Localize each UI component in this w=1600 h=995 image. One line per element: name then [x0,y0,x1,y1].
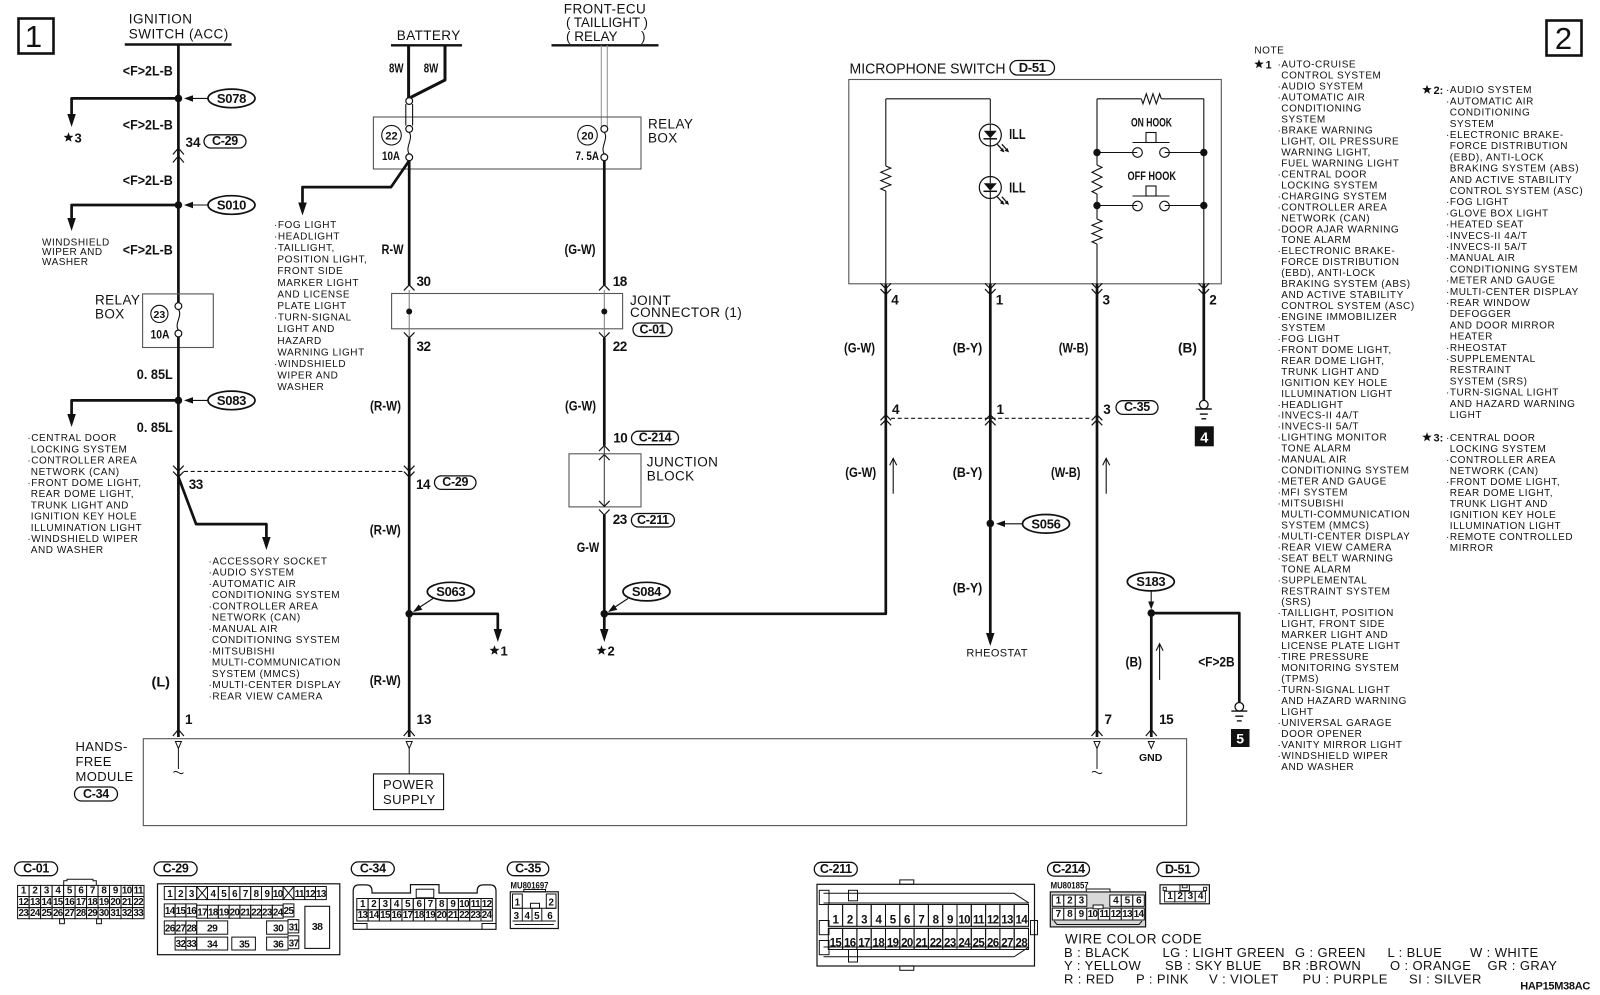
svg-text:12: 12 [1111,909,1122,920]
svg-text:R-W: R-W [382,242,404,257]
svg-text:1: 1 [501,644,508,659]
svg-text:CONDITIONING: CONDITIONING [1281,104,1362,115]
svg-text:17: 17 [858,938,870,950]
svg-text:·TIRE PRESSURE: ·TIRE PRESSURE [1278,652,1370,663]
fuse 22 element [406,98,413,105]
svg-text:1: 1 [996,293,1004,308]
svg-text:WIPER AND: WIPER AND [277,371,338,382]
svg-text:AND HAZARD WARNING: AND HAZARD WARNING [1450,399,1576,410]
svg-text:10: 10 [122,886,133,897]
svg-text:10: 10 [273,889,284,900]
connector C-211 middle bar [828,926,1028,928]
svg-text:SYSTEM: SYSTEM [1281,115,1325,126]
svg-text:31: 31 [289,922,300,933]
note column 3 [1422,432,1432,441]
svg-text:MARKER LIGHT AND: MARKER LIGHT AND [1281,630,1388,641]
svg-text:35: 35 [239,940,250,951]
svg-text:LICENSE PLATE LIGHT: LICENSE PLATE LIGHT [1281,641,1400,652]
wire R-W fuse 22 to joint connector [408,161,411,285]
module pin entry chevron [173,730,184,737]
svg-text:17: 17 [403,910,414,921]
svg-text:·INVECS-II 4A/T: ·INVECS-II 4A/T [1446,231,1528,242]
svg-text:3: 3 [1103,402,1111,417]
module pin 15 GND terminal [1148,742,1154,749]
svg-text:16: 16 [391,910,402,921]
svg-text:1: 1 [25,19,42,54]
svg-text:15: 15 [380,910,391,921]
svg-text:18: 18 [87,897,98,908]
svg-text:13: 13 [316,889,327,900]
svg-text:15: 15 [176,906,187,917]
svg-text:NETWORK (CAN): NETWORK (CAN) [31,467,120,478]
relay box (fuses 22, 20) [373,117,641,169]
connector crossing 23 C-211 [599,501,610,507]
svg-text:·MFI SYSTEM: ·MFI SYSTEM [1278,488,1349,499]
svg-text:TRUNK LIGHT AND: TRUNK LIGHT AND [1450,499,1548,510]
svg-text:ON HOOK: ON HOOK [1131,118,1173,130]
branch wire to *2 [603,614,606,629]
wire (G-W) fuse 20 to joint connector [603,161,606,285]
connector C-01 [15,862,58,876]
connector C-35 [507,862,549,876]
svg-text:28: 28 [76,908,87,919]
wire (G-W) joint connector to junction block [603,338,606,446]
svg-text:23: 23 [262,907,273,918]
svg-text:C-29: C-29 [212,134,238,148]
wire (R-W) C-29 to S063 [408,466,411,614]
svg-text:·AUDIO SYSTEM: ·AUDIO SYSTEM [209,568,295,579]
svg-text:SWITCH (ACC): SWITCH (ACC) [129,27,229,42]
microphone switch pin 1 [985,283,996,289]
svg-text:·MULTI-CENTER DISPLAY: ·MULTI-CENTER DISPLAY [1278,531,1411,542]
svg-text:S056: S056 [1031,516,1060,531]
connector C-211 housing [817,884,1035,966]
svg-text:14: 14 [416,477,431,492]
svg-text:·SUPPLEMENTAL: ·SUPPLEMENTAL [1446,354,1536,365]
svg-text:2:: 2: [1434,85,1444,97]
front-ECU bus bar [552,44,659,46]
node S056 junction dot [987,520,995,528]
svg-text:20: 20 [581,131,593,143]
svg-text:15: 15 [53,897,64,908]
svg-text:REAR DOME LIGHT,: REAR DOME LIGHT, [31,489,134,500]
svg-text:7: 7 [1105,712,1113,727]
svg-text:14: 14 [1016,915,1029,927]
branch wire to accessory socket list [178,477,266,538]
svg-text:G-W: G-W [577,540,600,555]
svg-text:10: 10 [1088,909,1099,920]
wire (B) S183 to ground 5 [1151,613,1239,703]
svg-text:3: 3 [514,911,520,922]
svg-text:17: 17 [76,897,87,908]
connector C-29 [154,862,197,876]
svg-text:22: 22 [613,339,627,354]
svg-text:2: 2 [1555,21,1572,56]
node S063 junction dot [405,610,413,618]
hands-free module box [143,739,1186,826]
svg-text:32: 32 [176,939,187,950]
branch wire to *3 [72,98,179,114]
svg-text:S078: S078 [217,91,246,106]
svg-text:DOOR OPENER: DOOR OPENER [1281,729,1362,740]
svg-text:( TAILLIGHT ): ( TAILLIGHT ) [566,15,648,30]
connector C-214 pin grid [1052,895,1064,906]
svg-text:TONE ALARM: TONE ALARM [1281,564,1351,575]
svg-text:26: 26 [165,923,176,934]
page tab 2 [1547,21,1582,56]
svg-text:21: 21 [122,897,133,908]
svg-text:RESTRAINT SYSTEM: RESTRAINT SYSTEM [1281,586,1390,597]
svg-text:14: 14 [41,897,52,908]
svg-text:·AUTO-CRUISE: ·AUTO-CRUISE [1278,60,1357,71]
ground 5 [1235,703,1244,712]
page tab 1 [19,19,54,54]
microphone switch box D-51 [849,80,1222,284]
svg-text:·LIGHTING MONITOR: ·LIGHTING MONITOR [1278,433,1388,444]
wire 0.85L relay box to S083 [177,337,180,401]
svg-text:(B-Y): (B-Y) [953,581,983,596]
svg-text:19: 19 [425,910,436,921]
svg-text:HANDS-: HANDS- [76,739,128,754]
svg-text:·TAILLIGHT, POSITION: ·TAILLIGHT, POSITION [1278,608,1394,619]
svg-text:R : RED: R : RED [1064,971,1114,986]
svg-text:PLATE LIGHT: PLATE LIGHT [277,301,346,312]
svg-text:21: 21 [448,910,459,921]
svg-text:27: 27 [1001,938,1013,950]
wire (R-W) S063 to module pin 13 [408,614,411,737]
svg-text:11: 11 [471,899,481,910]
svg-text:26: 26 [53,908,64,919]
connector C-01 top tab [64,879,97,885]
svg-text:·CHARGING SYSTEM: ·CHARGING SYSTEM [1278,191,1388,202]
svg-text:25: 25 [284,906,295,917]
svg-text:·FOG LIGHT: ·FOG LIGHT [1446,197,1509,208]
svg-text:12: 12 [305,889,316,900]
wire (W-B) pin 3 down to module pin 7 [1096,284,1099,737]
svg-text:18: 18 [873,938,886,950]
svg-text:1: 1 [997,402,1005,417]
wire: top rail left section [886,98,991,100]
fuse 22 designator [382,125,402,145]
svg-text:BOX: BOX [648,131,678,146]
lower resistor [1092,219,1102,244]
svg-text:(G-W): (G-W) [565,242,596,257]
svg-text:LOCKING SYSTEM: LOCKING SYSTEM [1450,444,1547,455]
connector C-01 pin grid [18,885,29,896]
fuse 20 designator [578,125,598,145]
svg-text:(G-W): (G-W) [845,465,876,480]
svg-text:·UNIVERSAL GARAGE: ·UNIVERSAL GARAGE [1278,718,1393,729]
svg-text:·INVECS-II 5A/T: ·INVECS-II 5A/T [1446,242,1528,253]
svg-text:LOCKING SYSTEM: LOCKING SYSTEM [31,444,128,455]
svg-text:13: 13 [417,712,433,727]
svg-text:13: 13 [1122,909,1133,920]
node S078 junction dot [175,95,183,103]
svg-text:·AUDIO SYSTEM: ·AUDIO SYSTEM [1446,85,1532,96]
branch wire to windshield wiper [72,205,179,218]
svg-text:1: 1 [515,897,521,908]
svg-text:·CONTROLLER AREA: ·CONTROLLER AREA [209,601,319,612]
svg-text:FORCE DISTRIBUTION: FORCE DISTRIBUTION [1281,257,1399,268]
svg-text:DEFOGGER: DEFOGGER [1450,309,1512,320]
svg-text:11: 11 [973,915,985,927]
svg-text:<F>2L-B: <F>2L-B [123,117,173,132]
svg-text:26: 26 [987,938,999,950]
svg-text:29: 29 [87,908,98,919]
svg-text:·AUTOMATIC AIR: ·AUTOMATIC AIR [209,579,297,590]
svg-text:·TURN-SIGNAL LIGHT: ·TURN-SIGNAL LIGHT [1278,685,1391,696]
svg-text:WASHER: WASHER [277,382,324,393]
branch wire to central door locking list [72,400,179,414]
wire (B-Y) pin 1 down to S056 [989,284,992,524]
svg-text:·RHEOSTAT: ·RHEOSTAT [1446,343,1507,354]
svg-text:27: 27 [64,908,75,919]
svg-text:32: 32 [122,908,133,919]
svg-text:CONTROL SYSTEM: CONTROL SYSTEM [1281,71,1381,82]
svg-text:25: 25 [41,908,52,919]
svg-text:(SRS): (SRS) [1281,597,1311,608]
svg-text:31: 31 [110,908,121,919]
svg-text:WASHER: WASHER [42,257,89,268]
connector C-35 housing [510,892,558,929]
svg-text:C-211: C-211 [637,513,669,527]
svg-text:14: 14 [1134,909,1145,920]
svg-text:10: 10 [459,899,470,910]
splice S078 [208,89,255,108]
svg-text:C-29: C-29 [442,475,468,489]
svg-text:2: 2 [1209,293,1217,308]
svg-text:CONDITIONING: CONDITIONING [1450,108,1531,119]
splice S010 [208,196,255,215]
connector crossing 10 C-214 [599,446,610,452]
junction block [569,454,641,507]
svg-text:22: 22 [385,131,397,143]
svg-text:C-35: C-35 [515,862,541,876]
svg-text:10: 10 [613,431,627,446]
svg-text:C-214: C-214 [1052,862,1085,876]
svg-text:WARNING LIGHT,: WARNING LIGHT, [1281,147,1371,158]
svg-text:30: 30 [273,924,284,935]
microphone switch pin 3 [1092,283,1103,289]
svg-text:CONDITIONING SYSTEM: CONDITIONING SYSTEM [1281,466,1409,477]
connector C-34 bottom step [353,924,496,930]
label *1 [490,645,500,654]
label *3 [64,132,74,141]
svg-text:4: 4 [891,293,899,308]
note column 2 [1422,85,1432,94]
svg-text:19: 19 [887,938,899,950]
svg-text:11: 11 [295,889,305,900]
splice S183 [1127,572,1174,591]
svg-text:P : PINK: P : PINK [1136,971,1189,986]
svg-text:NOTE: NOTE [1254,46,1284,57]
svg-text:28: 28 [186,923,197,934]
fuse 20 element [601,125,608,132]
svg-text:3: 3 [1103,293,1111,308]
svg-text:(L): (L) [152,675,171,690]
svg-text:17: 17 [197,907,208,918]
svg-text:·SEAT BELT WARNING: ·SEAT BELT WARNING [1278,553,1394,564]
svg-text:(W-B): (W-B) [1051,465,1081,480]
svg-text:S083: S083 [217,393,246,408]
svg-text:3: 3 [861,915,867,927]
connector C-29 pin grid row 4 [175,937,186,950]
svg-text:0. 85L: 0. 85L [137,367,173,382]
svg-text:·BRAKE WARNING: ·BRAKE WARNING [1278,126,1374,137]
wire (B) S183 to module pin 15 [1150,613,1153,737]
svg-text:(R-W): (R-W) [370,399,401,414]
wire 0.85L S083 to C-29 pin 33 [177,400,180,466]
svg-text:C-211: C-211 [820,862,852,876]
svg-text:<F>2L-B: <F>2L-B [123,242,173,257]
svg-text:·FRONT DOME LIGHT,: ·FRONT DOME LIGHT, [1278,345,1392,356]
svg-text:24: 24 [273,907,284,918]
svg-text:30: 30 [99,908,110,919]
svg-text:RESTRAINT: RESTRAINT [1450,365,1512,376]
resistor between hooks [1092,165,1102,194]
svg-text:SYSTEM (SRS): SYSTEM (SRS) [1450,376,1528,387]
svg-text:11: 11 [134,886,144,897]
svg-text:V : VIOLET: V : VIOLET [1209,971,1279,986]
svg-text:(G-W): (G-W) [844,341,875,356]
svg-text:10: 10 [958,915,970,927]
svg-text:16: 16 [844,938,856,950]
svg-text:·AUTOMATIC AIR: ·AUTOMATIC AIR [1446,96,1534,107]
svg-text:(B-Y): (B-Y) [953,341,983,356]
svg-text:NETWORK (CAN): NETWORK (CAN) [212,613,301,624]
svg-text:14: 14 [165,906,176,917]
wire S084 to microphone switch pin 4 [604,284,886,614]
svg-text:S183: S183 [1136,574,1165,589]
svg-text:FUEL WARNING LIGHT: FUEL WARNING LIGHT [1281,158,1399,169]
splice S084 [623,582,670,601]
svg-text:3:: 3: [1434,433,1444,445]
node S183 junction dot [1148,609,1156,617]
svg-text:13: 13 [1001,915,1013,927]
svg-text:1: 1 [185,712,193,727]
svg-text:LIGHT, OIL PRESSURE: LIGHT, OIL PRESSURE [1281,136,1399,147]
module pin 1 internal terminal [175,742,181,749]
svg-text:·CONTROLLER AREA: ·CONTROLLER AREA [1278,202,1388,213]
svg-text:20: 20 [230,907,241,918]
svg-text:·HEADLIGHT: ·HEADLIGHT [1278,400,1344,411]
svg-text:<F>2L-B: <F>2L-B [123,64,173,79]
svg-text:2: 2 [847,915,853,927]
svg-text:CONDITIONING SYSTEM: CONDITIONING SYSTEM [212,635,340,646]
svg-text:NETWORK (CAN): NETWORK (CAN) [1281,213,1370,224]
svg-text:S084: S084 [632,584,662,599]
module pin entry chevron [1146,730,1157,737]
svg-text:12: 12 [482,899,493,910]
svg-text:·DOOR AJAR WARNING: ·DOOR AJAR WARNING [1278,224,1400,235]
wire <F>2L-B ignition to S078 [177,45,180,99]
dashed connector line C-29 [184,470,403,472]
svg-text:10A: 10A [151,329,170,341]
wire (R-W) joint connector to C-29 [408,338,411,471]
svg-text:PU : PURPLE: PU : PURPLE [1303,971,1388,986]
svg-text:BRAKING SYSTEM (ABS): BRAKING SYSTEM (ABS) [1450,164,1579,175]
svg-text:C-35: C-35 [1124,400,1150,414]
svg-text:·AUTOMATIC AIR: ·AUTOMATIC AIR [1278,93,1366,104]
svg-text:ILLUMINATION LIGHT: ILLUMINATION LIGHT [31,523,142,534]
wire <F>2L-B S010 to relay box [177,205,180,303]
svg-text:GR : GRAY: GR : GRAY [1488,958,1558,973]
svg-text:OFF HOOK: OFF HOOK [1128,171,1177,183]
svg-text:FREE: FREE [76,754,112,769]
label *2 [597,645,607,654]
connector C-214 bottom strip [1054,921,1142,925]
connector crossing 14 C-29 [404,466,415,472]
splice S083 [208,391,255,410]
wire 8W battery right [411,45,446,97]
ground ref black tab 4 [1195,427,1213,446]
svg-text:TONE ALARM: TONE ALARM [1281,235,1351,246]
svg-text:34: 34 [207,940,218,951]
svg-text:·METER AND GAUGE: ·METER AND GAUGE [1446,276,1555,287]
svg-text:AND WASHER: AND WASHER [1281,762,1354,773]
svg-text:TRUNK LIGHT AND: TRUNK LIGHT AND [1281,367,1379,378]
svg-text:(B): (B) [1178,341,1197,356]
svg-text:16: 16 [186,906,197,917]
svg-text:CONTROL SYSTEM (ASC): CONTROL SYSTEM (ASC) [1281,301,1414,312]
svg-text:ILL: ILL [1009,180,1026,196]
svg-text:·METER AND GAUGE: ·METER AND GAUGE [1278,477,1387,488]
svg-text:20: 20 [901,938,913,950]
svg-text:C-214: C-214 [639,431,672,445]
left branch vertical [1096,99,1098,165]
svg-text:LIGHT: LIGHT [1281,707,1313,718]
svg-text:27: 27 [176,923,187,934]
svg-text:): ) [641,29,646,44]
connector crossing 33 (C-29) [173,466,184,472]
svg-text:·CONTROLLER AREA: ·CONTROLLER AREA [1446,455,1556,466]
svg-text:BRAKING SYSTEM (ABS): BRAKING SYSTEM (ABS) [1281,279,1410,290]
resistor (illumination) [885,99,887,166]
svg-text:D-51: D-51 [1019,60,1046,75]
svg-text:CONTROL SYSTEM (ASC): CONTROL SYSTEM (ASC) [1450,186,1583,197]
svg-text:C-29: C-29 [163,862,189,876]
module pin 7 internal terminal [1094,742,1100,749]
svg-text:BOX: BOX [95,307,125,322]
svg-text:·MANUAL AIR: ·MANUAL AIR [1278,455,1348,466]
svg-text:TONE ALARM: TONE ALARM [1281,444,1351,455]
svg-text:12: 12 [987,915,999,927]
svg-text:JUNCTION: JUNCTION [647,455,718,470]
wire: top rail right section with resistor [1097,98,1141,100]
svg-text:7: 7 [918,915,924,927]
svg-text:LOCKING SYSTEM: LOCKING SYSTEM [1281,180,1378,191]
svg-text:·MITSUBISHI: ·MITSUBISHI [1278,499,1345,510]
svg-text:13: 13 [30,897,41,908]
svg-text:MULTI-COMMUNICATION: MULTI-COMMUNICATION [212,658,341,669]
splice S056 [1023,515,1070,534]
svg-text:22: 22 [930,938,942,950]
svg-text:6: 6 [547,911,553,922]
splice S063 [427,582,474,601]
svg-text:23: 23 [471,910,482,921]
module pin entry chevron [1092,730,1103,737]
svg-text:·VANITY MIRROR LIGHT: ·VANITY MIRROR LIGHT [1278,740,1403,751]
svg-text:15: 15 [830,938,843,950]
svg-text:29: 29 [207,924,218,935]
connector C-35 pins [513,894,523,908]
svg-text:RELAY: RELAY [95,293,140,308]
svg-text:·WINDSHIELD WIPER: ·WINDSHIELD WIPER [27,534,138,545]
svg-text:21: 21 [240,907,251,918]
svg-text:AND ACTIVE STABILITY: AND ACTIVE STABILITY [1450,175,1573,186]
node S010 junction dot [175,201,183,209]
svg-text:·FOG LIGHT: ·FOG LIGHT [274,220,337,231]
